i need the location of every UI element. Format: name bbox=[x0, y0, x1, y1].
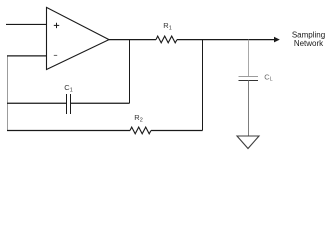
wire: CL vertical bottom bbox=[248, 81, 250, 137]
wire: R2 branch right bbox=[151, 130, 203, 132]
wire: left feedback vertical bbox=[7, 57, 9, 131]
op-amp U1 bbox=[47, 7, 110, 69]
capacitor CL bbox=[239, 72, 273, 82]
resistor R1 bbox=[156, 21, 177, 43]
wire: R1 to arrow bbox=[177, 39, 275, 41]
resistor R2 bbox=[130, 113, 151, 134]
wire: C1 branch right bbox=[71, 102, 130, 104]
ground bbox=[237, 136, 259, 149]
arrowhead to sampling network bbox=[274, 37, 280, 43]
wire: inverting input bbox=[7, 55, 47, 57]
wire: R2 branch left bbox=[7, 130, 130, 132]
wire: non-inverting input stub bbox=[6, 23, 47, 25]
wire: CL vertical top (gray) bbox=[248, 40, 250, 76]
wire: op-amp output to R1 bbox=[109, 39, 156, 41]
capacitor C1 bbox=[64, 83, 72, 114]
wire: R2 feedback vertical up to output bbox=[202, 40, 204, 131]
wire: C1 feedback vertical up to output bbox=[129, 40, 131, 104]
wire: C1 branch left bbox=[7, 102, 66, 104]
svg-text:Network: Network bbox=[294, 39, 324, 48]
